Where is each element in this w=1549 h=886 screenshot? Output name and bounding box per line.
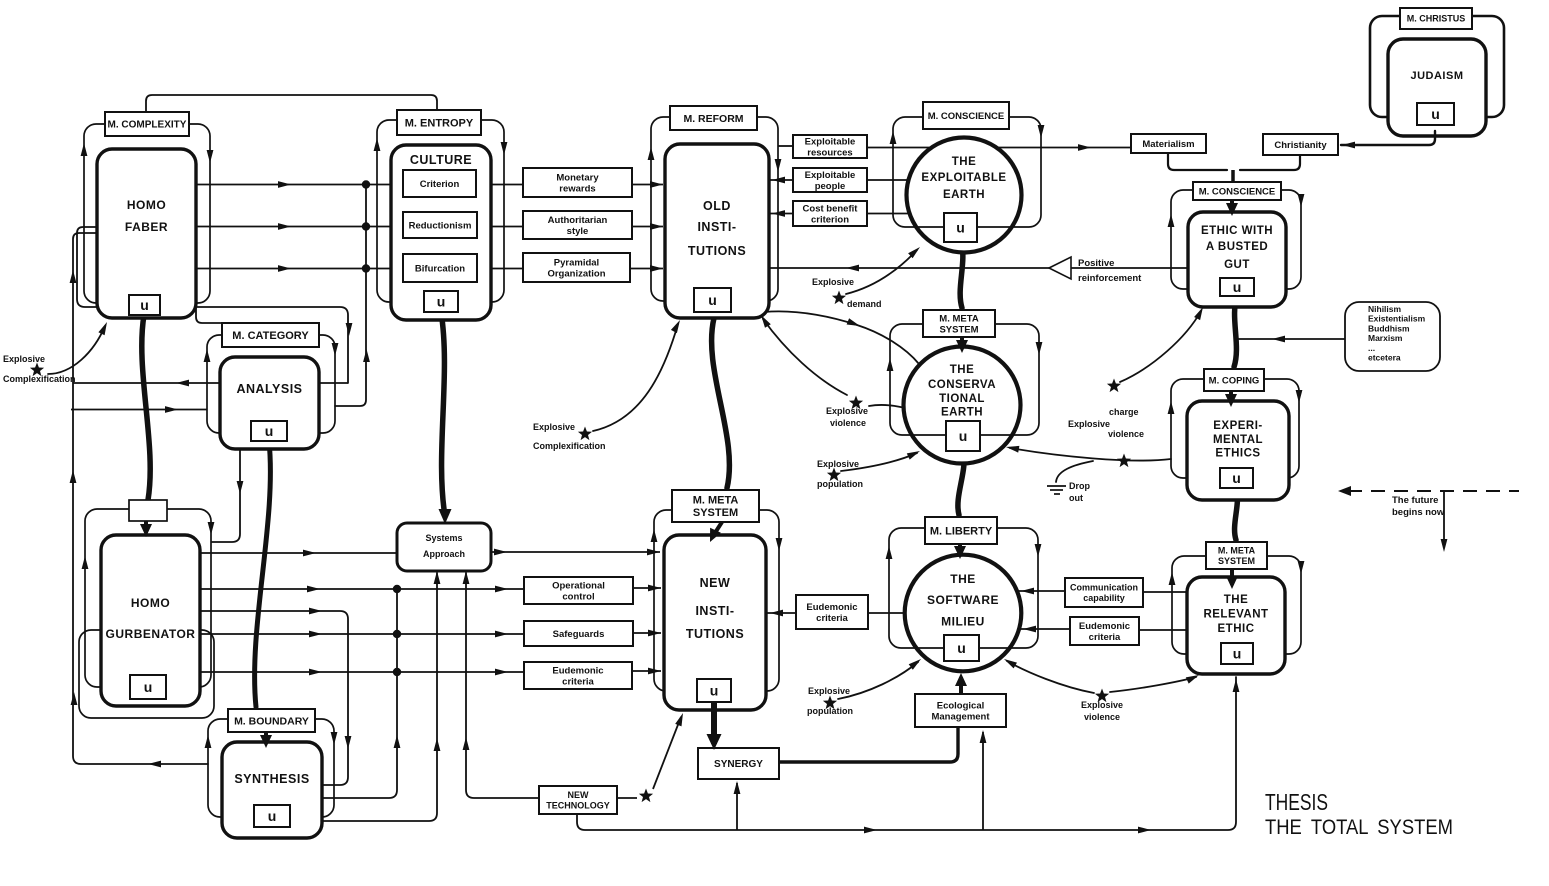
svg-text:CONSERVA: CONSERVA (928, 379, 996, 391)
svg-text:Reductionism: Reductionism (409, 220, 472, 231)
svg-text:CULTURE: CULTURE (410, 153, 472, 167)
svg-text:ANALYSIS: ANALYSIS (236, 382, 302, 396)
svg-text:u: u (959, 428, 968, 444)
svg-text:M. META: M. META (939, 314, 979, 325)
svg-text:HOMO: HOMO (131, 596, 170, 610)
svg-text:Monetary: Monetary (556, 173, 599, 184)
svg-text:M. META: M. META (1218, 546, 1256, 556)
svg-text:Explosive: Explosive (533, 422, 575, 432)
svg-text:INSTI-: INSTI- (695, 604, 734, 618)
svg-text:Positive: Positive (1078, 258, 1114, 269)
svg-text:rewards: rewards (559, 183, 595, 194)
svg-text:THE: THE (950, 572, 976, 586)
svg-text:JUDAISM: JUDAISM (1410, 70, 1463, 82)
svg-text:Explosive: Explosive (808, 686, 850, 696)
svg-text:Existentialism: Existentialism (1368, 314, 1426, 324)
svg-text:TIONAL: TIONAL (939, 393, 985, 405)
svg-text:M. REFORM: M. REFORM (683, 113, 743, 125)
svg-text:FABER: FABER (125, 220, 168, 234)
svg-text:criterion: criterion (811, 214, 849, 225)
svg-text:M. ENTROPY: M. ENTROPY (405, 117, 474, 129)
svg-text:EXPERI-: EXPERI- (1213, 420, 1263, 432)
svg-text:M. COPING: M. COPING (1209, 375, 1260, 386)
svg-text:GURBENATOR: GURBENATOR (106, 627, 196, 641)
svg-text:Approach: Approach (423, 549, 465, 559)
svg-text:violence: violence (830, 418, 866, 428)
svg-text:u: u (265, 423, 274, 439)
svg-text:Explosive: Explosive (1081, 700, 1123, 710)
svg-text:control: control (562, 591, 594, 602)
svg-text:Safeguards: Safeguards (553, 629, 605, 640)
svg-text:Explosive: Explosive (826, 406, 868, 416)
svg-text:Eudemonic: Eudemonic (806, 602, 857, 613)
svg-text:ETHICS: ETHICS (1215, 448, 1260, 460)
svg-text:Complexification: Complexification (533, 441, 606, 451)
svg-text:Complexification: Complexification (3, 374, 76, 384)
svg-text:u: u (140, 297, 149, 313)
svg-text:The future: The future (1392, 495, 1438, 506)
svg-text:u: u (956, 220, 965, 236)
svg-text:u: u (710, 683, 719, 699)
svg-text:demand: demand (847, 299, 882, 309)
svg-text:u: u (144, 679, 153, 695)
svg-text:SYSTEM: SYSTEM (939, 324, 978, 335)
svg-text:HOMO: HOMO (127, 198, 166, 212)
svg-text:GUT: GUT (1224, 259, 1250, 271)
svg-text:THE TOTAL SYSTEM: THE TOTAL SYSTEM (1265, 815, 1453, 839)
svg-text:TUTIONS: TUTIONS (688, 244, 746, 258)
svg-text:Systems: Systems (425, 533, 462, 543)
svg-text:SYSTEM: SYSTEM (693, 507, 738, 519)
svg-text:INSTI-: INSTI- (697, 220, 736, 234)
svg-text:Ecological: Ecological (937, 701, 985, 712)
svg-text:criteria: criteria (816, 613, 848, 624)
svg-text:M. LIBERTY: M. LIBERTY (930, 525, 993, 537)
svg-text:population: population (807, 706, 853, 716)
svg-text:Cost benefit: Cost benefit (803, 204, 859, 215)
svg-text:THE: THE (950, 364, 975, 376)
svg-text:EARTH: EARTH (941, 407, 983, 419)
svg-text:MENTAL: MENTAL (1213, 434, 1263, 446)
svg-text:Marxism: Marxism (1368, 333, 1403, 343)
svg-text:Drop: Drop (1069, 481, 1090, 491)
svg-text:Explosive: Explosive (812, 277, 854, 287)
svg-text:Management: Management (931, 711, 990, 722)
svg-text:Nihilism: Nihilism (1368, 304, 1402, 314)
svg-text:Criterion: Criterion (420, 179, 460, 190)
svg-text:M. BOUNDARY: M. BOUNDARY (234, 715, 309, 727)
svg-text:reinforcement: reinforcement (1078, 273, 1142, 284)
svg-text:EXPLOITABLE: EXPLOITABLE (921, 172, 1006, 184)
svg-text:Materialism: Materialism (1142, 139, 1194, 150)
svg-text:u: u (437, 294, 446, 310)
svg-text:begins now: begins now (1392, 507, 1445, 518)
svg-text:Bifurcation: Bifurcation (415, 263, 465, 274)
svg-text:SOFTWARE: SOFTWARE (927, 593, 999, 607)
svg-text:Authoritarian: Authoritarian (548, 215, 608, 226)
svg-text:out: out (1069, 493, 1083, 503)
svg-text:Exploitable: Exploitable (805, 137, 856, 148)
svg-text:people: people (815, 181, 846, 192)
svg-text:ETHIC: ETHIC (1218, 623, 1255, 635)
svg-text:MILIEU: MILIEU (941, 615, 985, 629)
svg-text:Buddhism: Buddhism (1368, 323, 1410, 333)
svg-text:charge: charge (1109, 407, 1139, 417)
svg-text:M. CONSCIENCE: M. CONSCIENCE (1199, 186, 1276, 197)
svg-text:OLD: OLD (703, 199, 731, 213)
svg-text:Explosive: Explosive (3, 354, 45, 364)
svg-text:...: ... (1368, 343, 1375, 353)
svg-text:M. CONSCIENCE: M. CONSCIENCE (928, 111, 1005, 122)
svg-text:u: u (1431, 106, 1440, 122)
svg-text:Exploitable: Exploitable (805, 170, 856, 181)
svg-text:u: u (1233, 279, 1242, 295)
svg-text:u: u (708, 292, 717, 308)
svg-text:THE: THE (1224, 594, 1249, 606)
svg-text:u: u (1233, 646, 1242, 662)
svg-text:NEW: NEW (568, 790, 590, 800)
svg-text:Pyramidal: Pyramidal (554, 258, 599, 269)
svg-text:SYNTHESIS: SYNTHESIS (234, 772, 309, 786)
svg-text:Operational: Operational (552, 581, 605, 592)
svg-text:criteria: criteria (562, 676, 594, 687)
svg-text:u: u (1232, 470, 1241, 486)
svg-text:Organization: Organization (547, 268, 605, 279)
svg-text:u: u (957, 640, 966, 656)
svg-text:M. COMPLEXITY: M. COMPLEXITY (108, 120, 187, 131)
svg-text:criteria: criteria (1089, 632, 1121, 643)
svg-text:Communication: Communication (1070, 583, 1138, 593)
svg-text:u: u (268, 808, 277, 824)
svg-text:etcetera: etcetera (1368, 353, 1401, 363)
svg-text:A BUSTED: A BUSTED (1206, 241, 1268, 253)
svg-text:SYNERGY: SYNERGY (714, 759, 763, 770)
svg-text:SYSTEM: SYSTEM (1218, 556, 1255, 566)
svg-text:Explosive: Explosive (1068, 419, 1110, 429)
svg-text:population: population (817, 479, 863, 489)
svg-text:violence: violence (1108, 429, 1144, 439)
svg-text:ETHIC WITH: ETHIC WITH (1201, 225, 1273, 237)
svg-text:NEW: NEW (700, 576, 731, 590)
svg-text:violence: violence (1084, 712, 1120, 722)
svg-text:EARTH: EARTH (943, 189, 985, 201)
svg-text:TUTIONS: TUTIONS (686, 627, 744, 641)
svg-text:Explosive: Explosive (817, 459, 859, 469)
svg-text:resources: resources (807, 147, 852, 158)
svg-text:M. META: M. META (693, 495, 739, 507)
svg-text:THESIS: THESIS (1265, 789, 1328, 815)
svg-text:TECHNOLOGY: TECHNOLOGY (546, 800, 610, 810)
svg-text:Eudemonic: Eudemonic (1079, 621, 1130, 632)
svg-text:THE: THE (952, 156, 977, 168)
svg-text:Eudemonic: Eudemonic (552, 666, 603, 677)
svg-text:style: style (567, 226, 589, 237)
svg-text:M. CHRISTUS: M. CHRISTUS (1407, 14, 1466, 24)
svg-text:M. CATEGORY: M. CATEGORY (232, 330, 309, 342)
svg-text:capability: capability (1083, 593, 1125, 603)
svg-text:Christianity: Christianity (1274, 140, 1327, 151)
svg-text:RELEVANT: RELEVANT (1203, 609, 1268, 621)
